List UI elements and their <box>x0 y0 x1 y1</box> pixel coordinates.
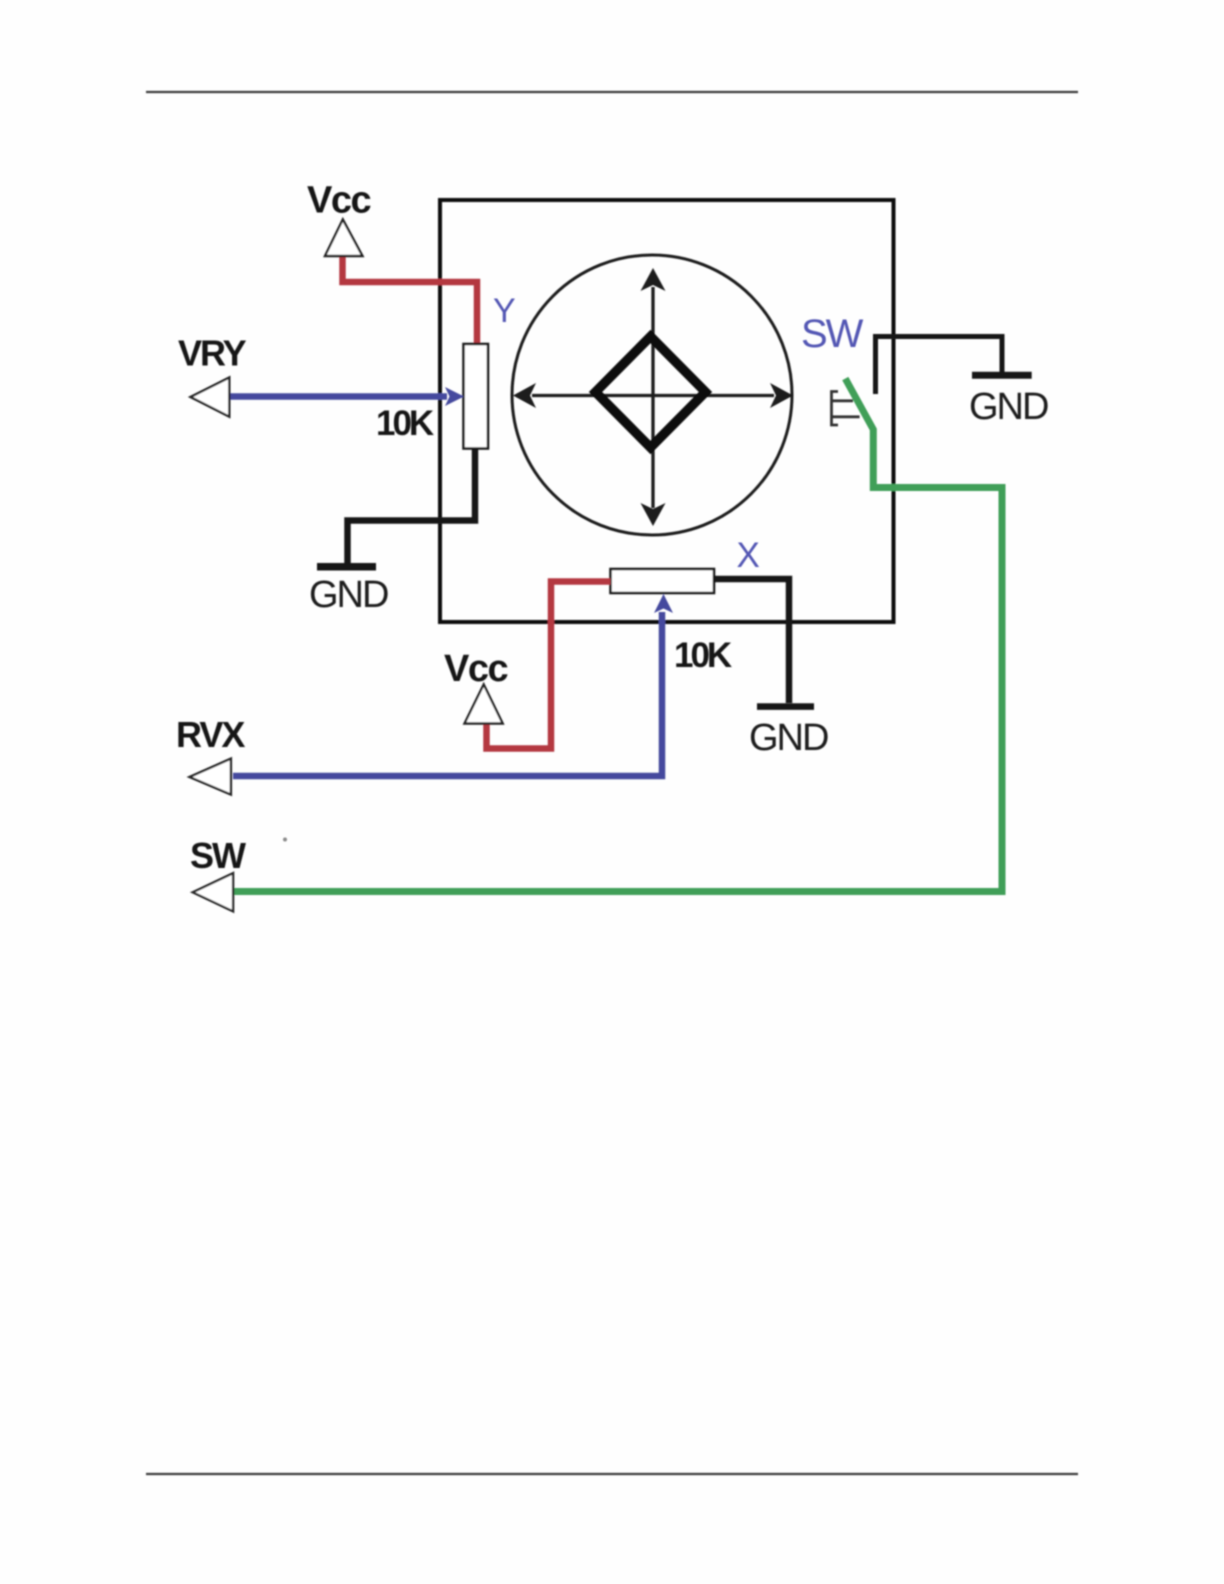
blue wire VRY to Y pot wiper <box>229 393 447 400</box>
svg-text:10K: 10K <box>376 404 434 443</box>
horizontal cross wire <box>532 394 774 397</box>
top page rule <box>146 91 1078 93</box>
left arrowhead <box>513 383 536 408</box>
black wire Y pot to GND <box>348 448 476 563</box>
potentiometer Y 10K <box>464 344 489 449</box>
push button actuator <box>832 392 860 426</box>
svg-text:GND: GND <box>309 574 388 616</box>
VRY output arrow <box>191 378 230 417</box>
up arrowhead <box>641 268 666 291</box>
svg-text:X: X <box>737 536 760 575</box>
blue wiper arrowhead (X) <box>654 594 673 613</box>
green switch lever and SW wire <box>233 379 1002 892</box>
joystick module box <box>440 200 894 622</box>
right arrowhead <box>770 383 793 408</box>
vertical cross wire <box>651 287 654 508</box>
blue wire RVX to X pot wiper <box>233 612 662 776</box>
svg-text:10K: 10K <box>674 636 732 675</box>
svg-text:SW: SW <box>190 835 246 876</box>
svg-text:GND: GND <box>749 717 828 759</box>
svg-text:Vcc: Vcc <box>444 648 508 690</box>
down arrowhead <box>641 503 666 526</box>
ground bar (SW) <box>972 372 1032 379</box>
svg-text:SW: SW <box>801 312 864 356</box>
svg-text:VRY: VRY <box>178 333 247 374</box>
ground bar (Y) <box>317 563 376 571</box>
svg-text:Vcc: Vcc <box>307 180 371 222</box>
switch fixed contact bracket <box>876 337 1003 395</box>
red wire Vcc to Y pot <box>343 257 478 344</box>
ground bar (X) <box>757 703 814 710</box>
SW output arrow <box>193 873 233 911</box>
Vcc symbol bottom <box>465 685 503 724</box>
RVX output arrow <box>190 759 231 795</box>
stick diamond <box>596 337 706 448</box>
stray mark <box>283 838 287 842</box>
bottom page rule <box>146 1473 1078 1475</box>
red wire Vcc to X pot <box>487 582 611 749</box>
Vcc symbol top <box>325 220 363 257</box>
svg-text:GND: GND <box>969 386 1048 428</box>
svg-text:RVX: RVX <box>176 714 245 755</box>
svg-text:Y: Y <box>493 292 516 330</box>
blue wiper arrowhead <box>445 387 464 406</box>
black wire X pot to GND <box>713 579 789 703</box>
potentiometer X 10K <box>611 569 715 593</box>
joystick circle <box>512 255 792 535</box>
